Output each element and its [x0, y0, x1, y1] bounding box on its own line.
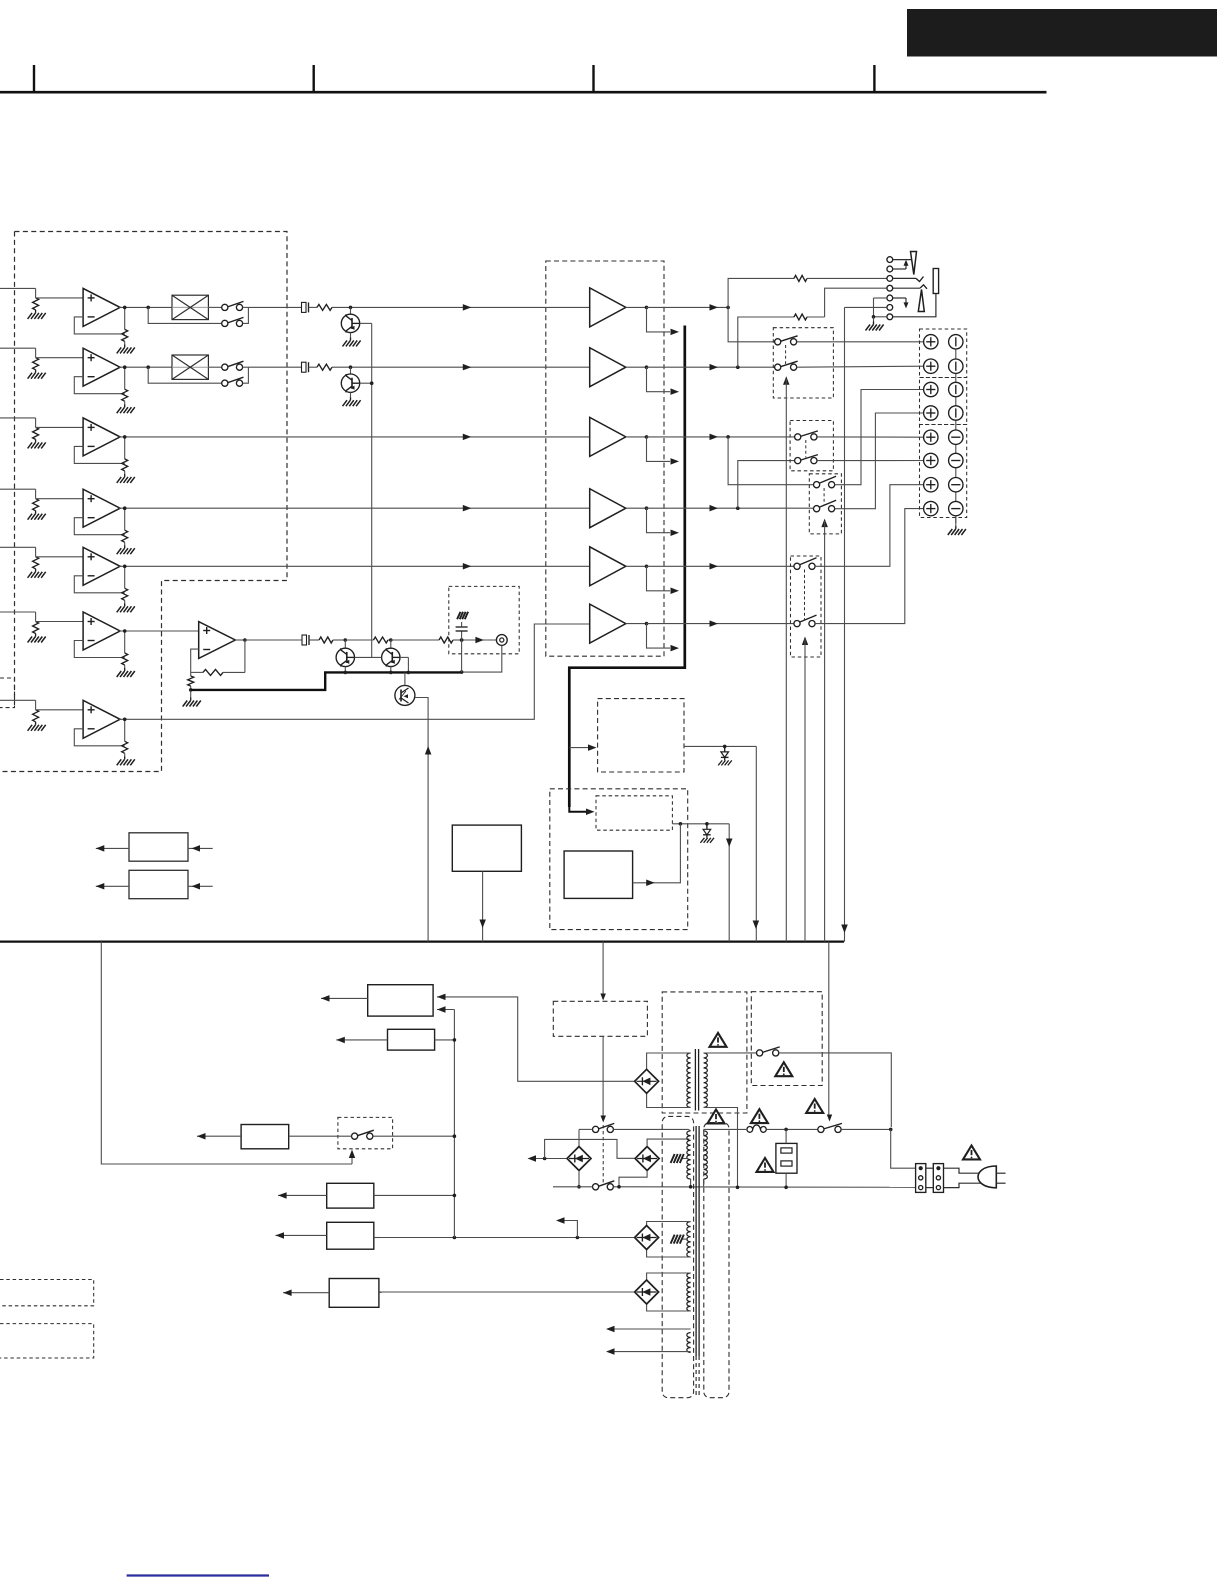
- display/control box B3: [452, 825, 521, 871]
- arrow (aux left): [556, 1217, 565, 1224]
- warning mark 2: [775, 1062, 792, 1076]
- resistor R3b (output shunt): [124, 437, 126, 459]
- bridge rectifier BR2: [567, 1147, 591, 1171]
- wire: bypass path FL: [148, 307, 222, 323]
- wire: matrix out FR: [208, 366, 221, 368]
- mute transistor Q5: [389, 638, 393, 642]
- input board dashed outline: [0, 232, 287, 772]
- speaker terminal -5: [949, 430, 963, 444]
- resistor R3a (input shunt): [33, 427, 39, 439]
- regulator box B9: [329, 1279, 379, 1308]
- wire: IC1 output: [684, 745, 756, 747]
- switch S2b (bypass FR): [222, 380, 228, 386]
- op-amp U2 (FR buffer): [83, 348, 120, 386]
- wire: to + input SL: [36, 498, 84, 500]
- switch box S2 (dashed): [338, 1117, 393, 1148]
- zener D1 to ground: [724, 746, 726, 752]
- wire: input line FL: [0, 287, 36, 289]
- wire: HP contact 5 riser: [893, 297, 906, 299]
- switch S1b (bypass FL): [222, 320, 228, 326]
- resistor R8b (to ground): [190, 672, 192, 676]
- wire: to + input FL: [36, 297, 84, 299]
- wire: standby DC vertical bus: [453, 1010, 455, 1238]
- wire: BR3 bottom to rail2: [619, 1171, 647, 1187]
- wire: FR to power amp: [248, 366, 301, 368]
- switch RY3b (SL): [814, 506, 820, 512]
- wire: IC2 output drop to PS: [728, 824, 730, 942]
- page frame: tick 2: [313, 65, 315, 92]
- ground (headphone): [873, 322, 875, 325]
- speaker terminal +4: [924, 406, 938, 420]
- arrow (B7 out left): [278, 1194, 327, 1196]
- switch S2: [352, 1133, 358, 1139]
- wire: to + input SR: [36, 556, 84, 558]
- power amp A2 (FR): [590, 348, 626, 387]
- warning mark 3: [751, 1109, 768, 1123]
- board separator line: [0, 940, 844, 942]
- wire: HP contact 5 to ground: [874, 297, 887, 299]
- resistor R8d: [345, 639, 373, 641]
- resistor R4a (input shunt): [33, 499, 39, 511]
- chassis tap T2 winding1: [681, 1158, 688, 1160]
- relay link RY2: [805, 440, 807, 458]
- op-amp U4 (SL buffer): [83, 489, 120, 527]
- wire: rail1 into T2 secondary: [688, 1129, 690, 1130]
- ground (input SR): [35, 569, 37, 572]
- wire: A5 detect branch: [647, 566, 671, 591]
- switch RY2b (SL-B): [795, 458, 801, 464]
- jack tip contact symbol: [911, 252, 917, 275]
- arrow: detect bus into protection: [569, 807, 586, 812]
- wire: RY3b to terminal 4: [835, 413, 924, 509]
- standby transformer T1 dashed box: [662, 992, 747, 1113]
- protector box IC1 (dashed): [598, 699, 684, 772]
- wire: S1 to AC hot node: [841, 1128, 891, 1130]
- arrow (IC1 out down): [753, 921, 760, 930]
- arrow (tip make contact): [904, 260, 909, 266]
- T2 secondary winding 2: [687, 1222, 691, 1257]
- wire: B5 input: [435, 1039, 455, 1041]
- arrow (SW pre-out): [475, 637, 484, 643]
- wire: Q1 base to mute bus: [360, 322, 372, 324]
- wire: RY4b to terminal 8: [815, 509, 924, 624]
- wire: U5 output to power amp (SR): [119, 565, 590, 567]
- resistor R8e: [439, 637, 453, 643]
- resistor R5a (input shunt): [33, 557, 39, 569]
- AC plug: [978, 1166, 996, 1188]
- wire: Q4-Q5 base link: [355, 656, 382, 658]
- regulator box B6: [241, 1125, 289, 1149]
- speaker terminal dashed box B (surround back): [920, 378, 967, 425]
- warning mark 5: [806, 1099, 823, 1113]
- arrow (C signal): [463, 434, 472, 441]
- wire: A1 detect branch: [647, 307, 671, 332]
- wire: feedback loop U4: [74, 518, 124, 535]
- wire: power switch control from top: [828, 942, 830, 1115]
- ground (input SW): [35, 722, 37, 725]
- wire: to + input MIX-IN: [36, 621, 84, 623]
- speaker terminal +7: [924, 478, 938, 492]
- ground (Q2 emitter): [350, 397, 352, 400]
- relay link RY4: [804, 570, 806, 621]
- switch RY1b (FR): [775, 364, 781, 370]
- wire: T2 secondary1 bottom to rail2: [690, 1179, 692, 1187]
- wire: RY4a to terminal 7: [815, 485, 924, 567]
- wire: BR2-BR3 output link: [545, 1139, 635, 1158]
- wire: rail1 to bridge BR2: [578, 1129, 580, 1146]
- wire: U6 output to mixer: [119, 630, 199, 632]
- wire: standby box to relay: [602, 1036, 604, 1116]
- wire: input line FR: [0, 347, 36, 349]
- wire: input line SL: [0, 488, 36, 490]
- subwoofer pre-out dashed box: [449, 586, 519, 653]
- op-amp U7 (SW buffer): [83, 700, 120, 738]
- page frame: bottom blue rule: [127, 1574, 269, 1576]
- AC outlet dashed box: [751, 992, 822, 1086]
- resistor R6a (input shunt): [33, 622, 39, 634]
- T1 secondary winding: [687, 1053, 691, 1107]
- wire: FR output run: [647, 366, 775, 368]
- wire: mixer ground bus (thick): [191, 672, 462, 690]
- AC connector CN1: [916, 1164, 926, 1193]
- warning mark 1: [710, 1033, 727, 1047]
- arrow (mute control up): [425, 746, 432, 755]
- switch RY2a (C): [795, 434, 801, 440]
- wire: BR1 DC to standby supply: [437, 997, 634, 1081]
- resistor R-HP-L: [794, 275, 807, 281]
- speaker terminal dashed box A (front): [920, 329, 967, 378]
- relay link RY3: [823, 488, 825, 506]
- wire: fuse to power switch: [766, 1128, 818, 1130]
- op-amp U8 (subwoofer mixer): [199, 622, 236, 659]
- wire: BR5 DC rail to box B9: [379, 1291, 634, 1293]
- wire: feedback loop U3: [74, 446, 124, 463]
- wire: RY1b to terminal 2: [797, 366, 924, 367]
- warning mark 7: [963, 1146, 980, 1160]
- power amp A6 (SW): [590, 604, 626, 643]
- wire: HP contact 1 to tip switch: [893, 259, 911, 261]
- ground (U2 output): [124, 404, 126, 407]
- speaker terminal -4: [949, 406, 963, 420]
- wire: jack sleeve return: [893, 294, 936, 317]
- arrow (DC output left): [528, 1155, 537, 1162]
- switch RY1a (FL): [775, 339, 781, 345]
- switch RY3a (C-B): [814, 482, 820, 488]
- wire: HP mute detect drop: [844, 307, 846, 941]
- speaker terminal -7: [949, 478, 963, 492]
- arrow (FR signal): [463, 364, 472, 371]
- mute transistor Q1: [349, 306, 353, 310]
- resistor R8c: [309, 639, 320, 641]
- wire: T1 secondary to BR1: [647, 1053, 691, 1070]
- speaker terminal +6: [924, 453, 938, 467]
- matrix/balance box FL: [172, 295, 208, 319]
- input connector dashed box (left edge): [0, 678, 15, 708]
- switch S1 (POWER): [818, 1126, 824, 1132]
- wire: B2 input stub: [188, 885, 213, 887]
- speaker terminal -6: [949, 453, 963, 467]
- wire: to + input FR: [36, 357, 84, 359]
- resistor R1a (input shunt): [33, 298, 39, 310]
- ground (input FL): [35, 310, 37, 313]
- wire: A6 output: [626, 623, 647, 625]
- signal box B1 (left): [129, 833, 188, 861]
- switch RY5b (AC primary relay): [593, 1184, 599, 1190]
- external board dashed box 1: [0, 1280, 94, 1306]
- ground (input C): [35, 439, 37, 442]
- jack body J2: [933, 269, 938, 294]
- wire: switch common FL: [243, 307, 249, 323]
- arrow (standby DC into box): [437, 994, 446, 1001]
- speaker terminal dashed box C (center/surround): [920, 425, 967, 518]
- page frame: top rule line: [0, 91, 1047, 94]
- relay driver box IC3: [564, 851, 633, 898]
- wire: winding4 output 1: [608, 1328, 691, 1330]
- page frame: tick 3: [592, 65, 594, 92]
- thermal fuse F1: [747, 1127, 753, 1133]
- speaker terminal -8: [949, 501, 963, 515]
- resistor R4b (output shunt): [124, 508, 126, 530]
- wire: BR4 DC rail: [374, 1237, 634, 1239]
- ground (Q1 emitter): [350, 337, 352, 340]
- regulator box B7: [327, 1183, 374, 1208]
- wire: T1 primary top to AC switch: [704, 1052, 757, 1054]
- warning mark 4: [708, 1110, 725, 1124]
- wire: feedback loop U6: [74, 641, 124, 658]
- wire: B1 input stub: [188, 847, 213, 849]
- wire: input line C: [0, 417, 36, 419]
- line filter capacitor box: [776, 1143, 797, 1173]
- speaker terminal -3: [949, 382, 963, 396]
- wire: J1 sleeve to ground bus: [462, 645, 502, 672]
- wire: FL to speaker relay: [728, 307, 775, 341]
- arrow (IC2 out down): [726, 839, 733, 848]
- wire: HP contact 6 (mute detect): [845, 306, 887, 308]
- bridge rectifier BR4: [635, 1226, 659, 1250]
- resistor R5b (output shunt): [124, 566, 126, 588]
- wire: standby control from top: [602, 942, 604, 999]
- bridge rectifier BR5: [635, 1280, 659, 1304]
- resistor R7b (output shunt): [124, 719, 126, 741]
- T2 secondary winding 3: [687, 1273, 691, 1311]
- wire: C branch to SB relay: [728, 437, 813, 485]
- capacitor C2 (coupling): [302, 362, 307, 372]
- page frame: tick 4: [873, 65, 875, 92]
- T2 primary winding: [704, 1131, 708, 1179]
- wire: RY1 control from protector: [785, 379, 787, 942]
- speaker relay box RY4 (dashed): [791, 556, 822, 657]
- AC connector CN2: [933, 1164, 943, 1193]
- protection board dashed box: [550, 789, 688, 930]
- mute transistor Q4: [344, 638, 348, 642]
- external board dashed box 2: [0, 1324, 94, 1358]
- wire: mute bus vertical: [371, 323, 373, 657]
- wire: U4 output to power amp (SL): [119, 507, 590, 509]
- wire: RY1a to terminal 1: [797, 341, 924, 343]
- wire: T2 primary bottom to rail2: [703, 1179, 705, 1187]
- wire: T1 primary bottom to rail2: [704, 1108, 738, 1188]
- wire: U3 output to power amp (C): [119, 436, 590, 438]
- ground (U8): [190, 698, 192, 701]
- regulator box B5: [388, 1029, 435, 1050]
- arrow (B5 out left): [336, 1039, 387, 1041]
- wire: S3 to AC hot node: [779, 1053, 892, 1127]
- wire: feedback loop U2: [74, 377, 124, 394]
- arrow (IC3 out): [646, 880, 655, 887]
- power amp A4 (SL): [590, 489, 626, 528]
- wire: U2 output to matrix box: [119, 366, 172, 368]
- wire: A4 output: [626, 507, 647, 509]
- wire: matrix out FL: [208, 306, 221, 308]
- arrow (FR out): [710, 364, 719, 371]
- ground (input SL): [35, 511, 37, 514]
- speaker terminal +8: [924, 501, 938, 515]
- capacitor C1 (coupling): [302, 302, 307, 312]
- wire: A4 detect branch: [647, 508, 671, 533]
- resistor R6b (output shunt): [124, 631, 126, 653]
- ground (U5 output): [124, 603, 126, 606]
- wire: A1 output: [626, 306, 647, 308]
- wire: feedback loop U7: [74, 729, 124, 746]
- arrow (B6 out left): [197, 1135, 241, 1137]
- speaker relay box RY3 (dashed): [809, 474, 841, 534]
- wire: RY3a to terminal 3: [835, 390, 924, 485]
- wire: BR2 to rail 2: [578, 1171, 580, 1187]
- ground (U3 output): [124, 474, 126, 477]
- resistor R2a (input shunt): [33, 358, 39, 370]
- speaker terminal +2: [924, 359, 938, 373]
- arrow (B1 output left): [96, 847, 129, 849]
- arrow (B4 out left): [321, 997, 368, 999]
- arrow (SR out): [710, 563, 719, 570]
- jack ring contact symbol: [918, 290, 924, 312]
- wire: B7 input: [374, 1194, 455, 1196]
- arrow (ring make contact): [904, 302, 909, 308]
- wire: T2 primary top to power switch: [703, 1129, 705, 1130]
- speaker terminal +5: [924, 430, 938, 444]
- wire: winding3 to BR5: [647, 1273, 691, 1280]
- wire: B8 input: [374, 1237, 380, 1239]
- wire: A6 detect branch: [647, 624, 671, 649]
- wire: input line MIX-IN: [0, 611, 36, 613]
- power amp A3 (CENTER): [590, 417, 626, 456]
- wire: BR4 aux branch: [561, 1221, 577, 1238]
- wire: FR to headphone tap: [738, 317, 794, 367]
- speaker terminal -1: [949, 335, 963, 349]
- wire: feedback loop U5: [74, 576, 124, 593]
- bridge rectifier BR1: [635, 1069, 659, 1093]
- wire: BR3 top to winding tap: [647, 1139, 689, 1146]
- main transformer T2 primary dashed box: [704, 1123, 729, 1398]
- wire: FL to power amp: [248, 306, 301, 308]
- wire: U8 output line: [245, 639, 302, 641]
- wire: CN1-CN2 links: [926, 1167, 934, 1169]
- wire: U1 output to matrix box: [119, 306, 172, 308]
- T2 winding 4 (heater): [687, 1333, 691, 1353]
- wire: RY4 control from protector: [804, 639, 806, 942]
- T1 core: [694, 1049, 696, 1111]
- capacitor C8 (coupling): [302, 635, 307, 645]
- switch RY4b (SW): [794, 621, 800, 627]
- wire: secondary rail 1: [613, 1128, 688, 1130]
- wire: to + input C: [36, 426, 84, 428]
- wire: input line SW: [0, 699, 36, 701]
- arrow (SL signal): [463, 505, 472, 512]
- arrow (SR signal): [463, 563, 472, 570]
- wire: input line SR: [0, 546, 36, 548]
- arrow (relay actuate): [601, 1116, 607, 1123]
- resistor R-HP-R: [794, 314, 807, 320]
- page frame: tick 1: [33, 65, 35, 92]
- arrow (FL out): [710, 304, 719, 311]
- wire: A3 detect branch: [647, 437, 671, 462]
- arrow (B3 out down): [479, 920, 486, 929]
- wire: HP contact 7 to ground: [874, 316, 887, 318]
- speaker terminal -2: [949, 359, 963, 373]
- arrow (B8 out left): [276, 1234, 327, 1236]
- resistor R7a (input shunt): [33, 710, 39, 722]
- wire: to + input SW: [36, 709, 84, 711]
- relay link RY1: [785, 345, 787, 364]
- matrix/balance box FR: [172, 355, 208, 379]
- wire: winding2 to BR4: [647, 1222, 691, 1226]
- page frame: header black box: [907, 9, 1217, 57]
- main transformer T2 secondary dashed box: [662, 1116, 693, 1397]
- T1 primary winding: [704, 1053, 708, 1107]
- speaker terminal +1: [924, 335, 938, 349]
- arrow (HP detect down): [841, 925, 848, 934]
- speaker relay box RY2 (dashed): [790, 421, 833, 471]
- wire: FL to headphone tap: [728, 278, 794, 307]
- protection detect bus (thick): [569, 326, 685, 808]
- arrow (S1 control): [827, 1115, 832, 1122]
- op-amp U5 (SR buffer): [83, 547, 120, 585]
- ground (U4 output): [124, 545, 126, 548]
- op-amp U6 (MIX-IN buffer): [83, 612, 120, 650]
- signal box B2 (left): [129, 870, 188, 898]
- speaker relay box RY1 (dashed): [773, 328, 833, 398]
- resistor R2b (output shunt): [124, 367, 126, 389]
- wire: A5 output: [626, 565, 647, 567]
- wire: BR2 DC output left: [530, 1158, 567, 1160]
- ground (U7 output): [124, 756, 126, 759]
- wire: IC3 output to IC2 node: [633, 824, 681, 883]
- wire: S2 to DC bus: [373, 1135, 455, 1137]
- wire: detect branch to protector 1: [569, 747, 589, 749]
- arrow (RY3 control): [821, 519, 828, 528]
- arrow (switch S2 control): [351, 1152, 353, 1164]
- T2 secondary winding 1: [687, 1131, 691, 1179]
- ground (input MIX-IN): [35, 634, 37, 637]
- switch RY4a (SR): [794, 563, 800, 569]
- wire: feedback loop U1: [74, 317, 124, 334]
- wire: RY2a to terminal 5: [817, 436, 924, 438]
- wire: SR output run: [647, 565, 795, 567]
- wire: A2 output: [626, 366, 647, 368]
- wire: B4 input 2: [437, 1009, 454, 1011]
- capacitor C9 to chassis: [460, 638, 464, 642]
- mute transistor Q2: [349, 365, 353, 369]
- op-amp U1 (FL buffer): [83, 288, 120, 326]
- op-amp U3 (C buffer): [83, 418, 120, 456]
- protector box IC2 (dashed): [596, 796, 672, 830]
- wire: HP contact 2 riser: [893, 268, 906, 270]
- regulator box B8: [327, 1222, 374, 1249]
- wire: AC rail 2 (neutral): [553, 1186, 593, 1188]
- wire: U8 output drop: [235, 639, 245, 641]
- arrow (FL signal): [463, 304, 472, 311]
- wire: HP contact 3 (L signal) to tip: [893, 277, 916, 279]
